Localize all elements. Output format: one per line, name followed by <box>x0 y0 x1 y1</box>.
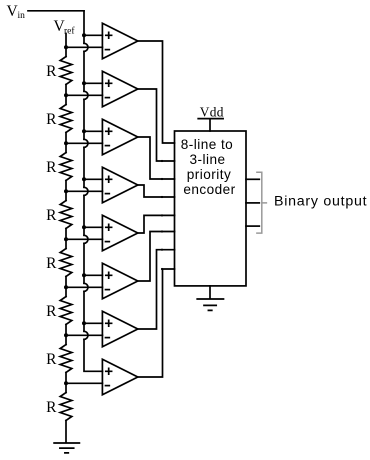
wire + input U7 <box>84 322 102 324</box>
wire binary output bit 2 <box>246 178 259 180</box>
wire - input U8 <box>66 382 102 384</box>
svg-text:R: R <box>46 303 57 320</box>
svg-text:R: R <box>46 63 57 80</box>
svg-text:R: R <box>46 207 57 224</box>
op-amp U7 comparator <box>102 311 137 346</box>
op-amp U6 comparator <box>102 263 137 298</box>
node ladder tap 6 <box>64 285 68 289</box>
node ladder tap 1 <box>64 45 68 49</box>
node bus tap 4 <box>82 177 86 181</box>
wire + input U1 <box>84 34 102 36</box>
resistor R4 <box>46 191 72 239</box>
svg-text:Vdd: Vdd <box>200 104 224 119</box>
resistor R2 <box>46 95 72 143</box>
wire - input U1 <box>66 46 102 48</box>
node ladder tap 4 <box>64 189 68 193</box>
node ladder tap 2 <box>64 93 68 97</box>
wire - input U7 <box>66 334 102 336</box>
wire Vin horizontal <box>28 10 84 12</box>
bracket binary output <box>257 172 267 233</box>
wire output U4 to encoder <box>138 185 175 197</box>
op-amp U1 comparator <box>102 23 137 58</box>
ground encoder <box>197 286 223 311</box>
wire Vref to ladder <box>65 34 67 48</box>
svg-text:R: R <box>46 399 57 416</box>
svg-text:R: R <box>46 159 57 176</box>
wire hops over bus <box>84 43 88 339</box>
node bus tap 5 <box>82 225 86 229</box>
node bus tap 3 <box>82 129 86 133</box>
wire - input U6 <box>66 286 102 288</box>
wire output U5 to encoder <box>138 215 175 233</box>
wire + input U2 <box>84 82 102 84</box>
svg-text:R: R <box>46 111 57 128</box>
wire binary output bit 0 <box>246 225 259 227</box>
node ladder tap 5 <box>64 237 68 241</box>
wire binary output bit 1 <box>246 202 259 204</box>
resistor R1 <box>46 47 72 95</box>
wire - input U3 <box>66 142 102 144</box>
ground ladder <box>54 443 79 453</box>
svg-text:R: R <box>46 351 57 368</box>
node bus tap 1 <box>82 33 86 37</box>
power Vdd <box>198 104 224 131</box>
wire - input U2 <box>66 94 102 96</box>
wire + input U5 <box>84 226 102 228</box>
svg-text:R: R <box>46 255 57 272</box>
op-amp U2 comparator <box>102 71 137 106</box>
op-amp U3 comparator <box>102 119 137 154</box>
svg-text:8-line to: 8-line to <box>181 137 233 152</box>
wire output U1 to encoder <box>138 41 175 143</box>
node ladder tap 3 <box>64 141 68 145</box>
op-amp U8 comparator <box>102 359 137 394</box>
resistor R7 <box>46 335 72 383</box>
op-amp U5 comparator <box>102 215 137 250</box>
encoder U9 8-line to 3-line priority encoder <box>175 131 247 286</box>
node entry tick dots <box>161 160 163 162</box>
svg-text:Binary output: Binary output <box>274 194 367 210</box>
wire + input U3 <box>84 130 102 132</box>
label Vref <box>54 18 76 36</box>
op-amp U4 comparator <box>102 167 137 202</box>
wire output U8 to encoder <box>138 269 175 377</box>
node ladder tap 7 <box>64 333 68 337</box>
resistor R3 <box>46 143 72 191</box>
resistor R8 <box>46 383 72 442</box>
node bus tap 6 <box>82 273 86 277</box>
resistor R6 <box>46 287 72 335</box>
wire + input U4 <box>84 178 102 180</box>
svg-text:encoder: encoder <box>183 182 235 197</box>
wire output U2 to encoder <box>138 89 175 161</box>
node bus tap 2 <box>82 81 86 85</box>
svg-text:3-line: 3-line <box>190 152 226 167</box>
wire output U7 to encoder <box>138 250 175 329</box>
wire + input U6 <box>84 274 102 276</box>
node ladder tap 8 <box>64 381 68 385</box>
svg-text:priority: priority <box>187 167 231 182</box>
wire output U3 to encoder <box>138 137 175 179</box>
resistor R5 <box>46 239 72 287</box>
wire Vin bus vertical with hops <box>84 11 102 372</box>
wire - input U4 <box>66 190 102 192</box>
wire output U6 to encoder <box>138 232 175 282</box>
label Vin <box>7 3 26 21</box>
svg-text:in: in <box>18 11 26 21</box>
wire - input U5 <box>66 238 102 240</box>
node bus tap 7 <box>82 321 86 325</box>
